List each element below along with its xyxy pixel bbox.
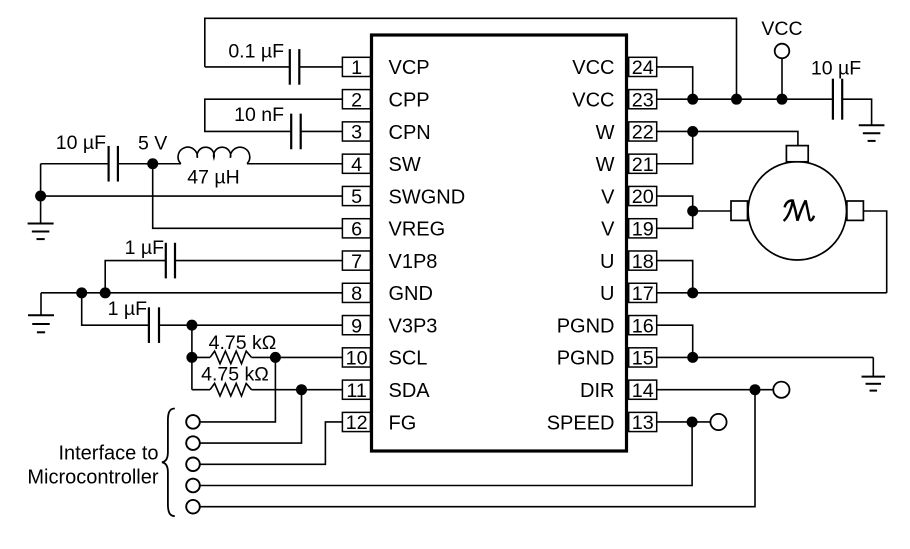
pin 4 box [342, 154, 370, 176]
pin name U 17 [600, 283, 614, 305]
pin name DIR 14 [580, 380, 614, 402]
node VCC rail j3 [777, 94, 788, 105]
svg-text:W: W [596, 122, 615, 144]
wire V19 [657, 211, 693, 228]
pin name W 22 [596, 122, 615, 144]
terminal T1 [186, 415, 200, 429]
svg-text:0.1 µF: 0.1 µF [228, 41, 284, 63]
node GND junction A [76, 287, 87, 298]
terminal SPEED [710, 414, 726, 430]
svg-text:VCC: VCC [761, 18, 802, 40]
pin 23 box [629, 89, 657, 111]
supply VCC terminal [775, 44, 790, 99]
svg-text:1: 1 [351, 57, 362, 79]
pin 7 box [342, 251, 370, 273]
pin 18 box [629, 251, 657, 273]
svg-text:U: U [600, 251, 614, 273]
svg-text:V1P8: V1P8 [389, 251, 438, 273]
wire top loop VCP to VCC [205, 18, 737, 99]
wire SDA left lead [192, 389, 210, 391]
wire V1P8 right [175, 260, 342, 262]
pin 21 box [629, 154, 657, 176]
wire W21 [657, 131, 693, 163]
pin name SDA [389, 380, 431, 402]
node U junction [687, 287, 698, 298]
node W junction [687, 126, 698, 137]
pin name V 19 [601, 219, 615, 241]
wire SPEED to header [199, 422, 692, 486]
pin 8 box [342, 283, 370, 305]
wire V20 [657, 196, 693, 211]
wire SCL right lead [252, 356, 343, 358]
wire SDA right lead [252, 389, 343, 391]
wire V3P3 to SCL [191, 325, 193, 357]
svg-text:4.75 kΩ: 4.75 kΩ [201, 364, 269, 386]
svg-text:47 µH: 47 µH [187, 167, 239, 189]
svg-text:23: 23 [632, 89, 654, 111]
svg-text:VCC: VCC [572, 57, 614, 79]
node GND junction B [100, 287, 111, 298]
label Microcontroller [27, 466, 158, 488]
wire VCP left [205, 66, 290, 68]
terminal T4 [186, 479, 200, 493]
svg-text:V3P3: V3P3 [389, 315, 438, 337]
wire DIR to header [199, 390, 755, 507]
node V junction [687, 206, 698, 217]
wire SCL to header [199, 357, 276, 421]
svg-text:5: 5 [351, 186, 362, 208]
svg-text:CPP: CPP [389, 89, 430, 111]
pin name PGND 16 [557, 315, 615, 337]
svg-text:SWGND: SWGND [389, 186, 466, 208]
svg-text:GND: GND [389, 283, 433, 305]
node DIR junction [750, 384, 761, 395]
node V3P3 junction [186, 320, 197, 331]
wire CPN right [301, 130, 343, 132]
pin name W 21 [596, 154, 615, 176]
pin 10 box [342, 348, 370, 370]
wire VCC24 [657, 67, 693, 99]
pin name CPN [389, 122, 431, 144]
label 1 uF V1P8 [125, 237, 164, 259]
wire cap down to SWGND line [40, 164, 42, 196]
svg-text:PGND: PGND [557, 315, 615, 337]
motor M1 body [748, 162, 846, 260]
node PGND junction [687, 352, 698, 363]
label 47 uH [187, 167, 239, 189]
svg-text:21: 21 [632, 154, 654, 176]
wire SDA to header [199, 390, 302, 443]
pin 17 box [629, 283, 657, 305]
svg-text:4: 4 [351, 154, 362, 176]
label 10 uF right [811, 58, 861, 80]
pin 19 box [629, 219, 657, 241]
ground G1 [28, 196, 54, 239]
wire VCC23 rail [657, 98, 833, 100]
wire U18 [657, 261, 693, 293]
label VCC [761, 18, 802, 40]
svg-text:SDA: SDA [389, 380, 431, 402]
pin name SCL [389, 348, 428, 370]
label 1 uF V3P3 [108, 298, 147, 320]
svg-text:8: 8 [351, 283, 362, 305]
svg-text:VREG: VREG [389, 219, 446, 241]
svg-text:6: 6 [351, 219, 362, 241]
pin 13 box [629, 412, 657, 434]
svg-text:FG: FG [389, 412, 417, 434]
ground G2 [28, 293, 54, 332]
wire V to motor [693, 210, 731, 212]
label Interface to [58, 442, 158, 464]
motor M1 left terminal [731, 201, 748, 220]
pin 9 box [342, 315, 370, 337]
svg-text:18: 18 [632, 251, 654, 273]
wire CPP [205, 99, 343, 131]
capacitor 1uF V1P8 plates [166, 243, 175, 279]
pin name VREG [389, 219, 446, 241]
brace interface [162, 409, 175, 517]
svg-text:5 V: 5 V [138, 132, 167, 154]
ground G4 [862, 377, 886, 391]
node SPEED junction [687, 416, 698, 427]
wire inductor to SW [247, 163, 342, 165]
svg-text:4.75 kΩ: 4.75 kΩ [209, 332, 277, 354]
capacitor 10uF left plates [109, 146, 118, 182]
pin name SW [389, 154, 421, 176]
resistor 4.75k SDA [210, 383, 252, 396]
label motor M [784, 200, 814, 221]
pin name V1P8 [389, 251, 438, 273]
wire GND [41, 292, 342, 294]
label 0.1 uF [228, 41, 284, 63]
svg-text:13: 13 [632, 412, 654, 434]
svg-text:2: 2 [351, 89, 362, 111]
svg-text:10 µF: 10 µF [811, 58, 861, 80]
pin name FG [389, 412, 417, 434]
pin 14 box [629, 380, 657, 402]
svg-text:VCP: VCP [389, 57, 430, 79]
wire FG [199, 422, 343, 464]
wire SW left segment [41, 163, 109, 165]
ground G3 [859, 125, 885, 141]
pin name SPEED 13 [547, 412, 615, 434]
label 10 uF left [56, 132, 106, 154]
pin 6 box [342, 219, 370, 241]
svg-text:11: 11 [346, 380, 367, 402]
wire V3P3 left [82, 293, 149, 325]
svg-text:1 µF: 1 µF [125, 237, 164, 259]
svg-text:17: 17 [632, 283, 654, 305]
svg-text:Interface to: Interface to [58, 442, 158, 464]
svg-text:SW: SW [389, 154, 421, 176]
wire DIR [657, 389, 774, 391]
motor M1 top terminal [786, 146, 808, 162]
svg-text:3: 3 [351, 122, 362, 144]
pin 3 box [342, 122, 370, 144]
node SCL left junction [186, 352, 197, 363]
pin 11 box [342, 380, 370, 402]
pin name VCP [389, 57, 430, 79]
svg-text:U: U [600, 283, 614, 305]
svg-text:16: 16 [632, 315, 654, 337]
wire PGND15 [657, 356, 874, 358]
wire motor right loop [863, 211, 886, 293]
wire W22 [657, 131, 798, 145]
pin name V3P3 [389, 315, 438, 337]
pin name CPP [389, 89, 430, 111]
svg-text:1 µF: 1 µF [108, 298, 147, 320]
svg-text:20: 20 [632, 186, 654, 208]
wire SPEED [657, 421, 711, 423]
resistor 4.75k SCL [210, 351, 252, 364]
label 4.75 kOhm SDA [201, 364, 269, 386]
wire VCP right [299, 66, 342, 68]
svg-text:24: 24 [632, 57, 654, 79]
svg-text:9: 9 [351, 315, 362, 337]
wire cap to 5V node [118, 163, 181, 165]
wire V3P3 right [159, 324, 342, 326]
svg-text:Microcontroller: Microcontroller [27, 466, 158, 488]
pin name PGND 15 [557, 348, 615, 370]
svg-text:V: V [601, 186, 615, 208]
node SDA junction [296, 384, 307, 395]
terminal T3 [186, 458, 200, 472]
label 10 nF [234, 104, 284, 126]
svg-text:22: 22 [632, 122, 654, 144]
terminal T5 [186, 500, 200, 514]
node 5V junction [147, 158, 158, 169]
wire V1P8 left [105, 261, 166, 293]
pin 2 box [342, 89, 370, 111]
wire VREG from 5V node [153, 164, 343, 229]
svg-text:10: 10 [346, 348, 368, 370]
svg-text:PGND: PGND [557, 348, 615, 370]
svg-text:19: 19 [632, 219, 654, 241]
capacitor 10nF plates [291, 114, 301, 150]
pin name U 18 [600, 251, 614, 273]
pin name GND [389, 283, 433, 305]
pin name V 20 [601, 186, 615, 208]
label 4.75 kOhm SCL [209, 332, 277, 354]
svg-text:7: 7 [351, 251, 362, 273]
svg-text:10 nF: 10 nF [234, 104, 284, 126]
terminal DIR [773, 382, 789, 398]
wire SCL left lead [192, 356, 210, 358]
node VCC rail j1 [687, 94, 698, 105]
node SCL right junction [270, 352, 281, 363]
svg-text:DIR: DIR [580, 380, 614, 402]
pin name SWGND [389, 186, 466, 208]
capacitor 0.1uF plates [290, 49, 300, 85]
capacitor 1uF V3P3 plates [149, 307, 159, 343]
pin 1 box [342, 57, 370, 79]
pin 24 box [629, 57, 657, 79]
capacitor 10uF right plates [833, 79, 842, 120]
IC U1 body [372, 35, 627, 451]
pin 5 box [342, 186, 370, 208]
terminal T2 [186, 436, 200, 450]
svg-text:10 µF: 10 µF [56, 132, 106, 154]
motor M1 right terminal [847, 201, 864, 220]
svg-text:12: 12 [346, 412, 368, 434]
pin 15 box [629, 348, 657, 370]
pin name VCC 24 [572, 57, 614, 79]
svg-text:VCC: VCC [572, 89, 614, 111]
wire U17 [657, 292, 887, 294]
node SWGND junction [35, 191, 46, 202]
label 5 V [138, 132, 167, 154]
svg-text:CPN: CPN [389, 122, 431, 144]
svg-text:V: V [601, 219, 615, 241]
wire PGND16 [657, 325, 693, 357]
svg-text:14: 14 [632, 380, 654, 402]
pin 22 box [629, 122, 657, 144]
wire PGND to ground [872, 357, 874, 376]
inductor 47uH [178, 147, 250, 164]
svg-text:SCL: SCL [389, 348, 428, 370]
pin 16 box [629, 315, 657, 337]
node VCC rail j2 [731, 94, 742, 105]
pin 12 box [342, 412, 370, 434]
svg-text:15: 15 [632, 348, 654, 370]
wire SCL junction down [191, 357, 193, 389]
svg-text:W: W [596, 154, 615, 176]
wire cap to ground [842, 99, 871, 125]
pin name VCC 23 [572, 89, 614, 111]
wire SWGND [41, 195, 343, 197]
svg-text:SPEED: SPEED [547, 412, 615, 434]
pin 20 box [629, 186, 657, 208]
